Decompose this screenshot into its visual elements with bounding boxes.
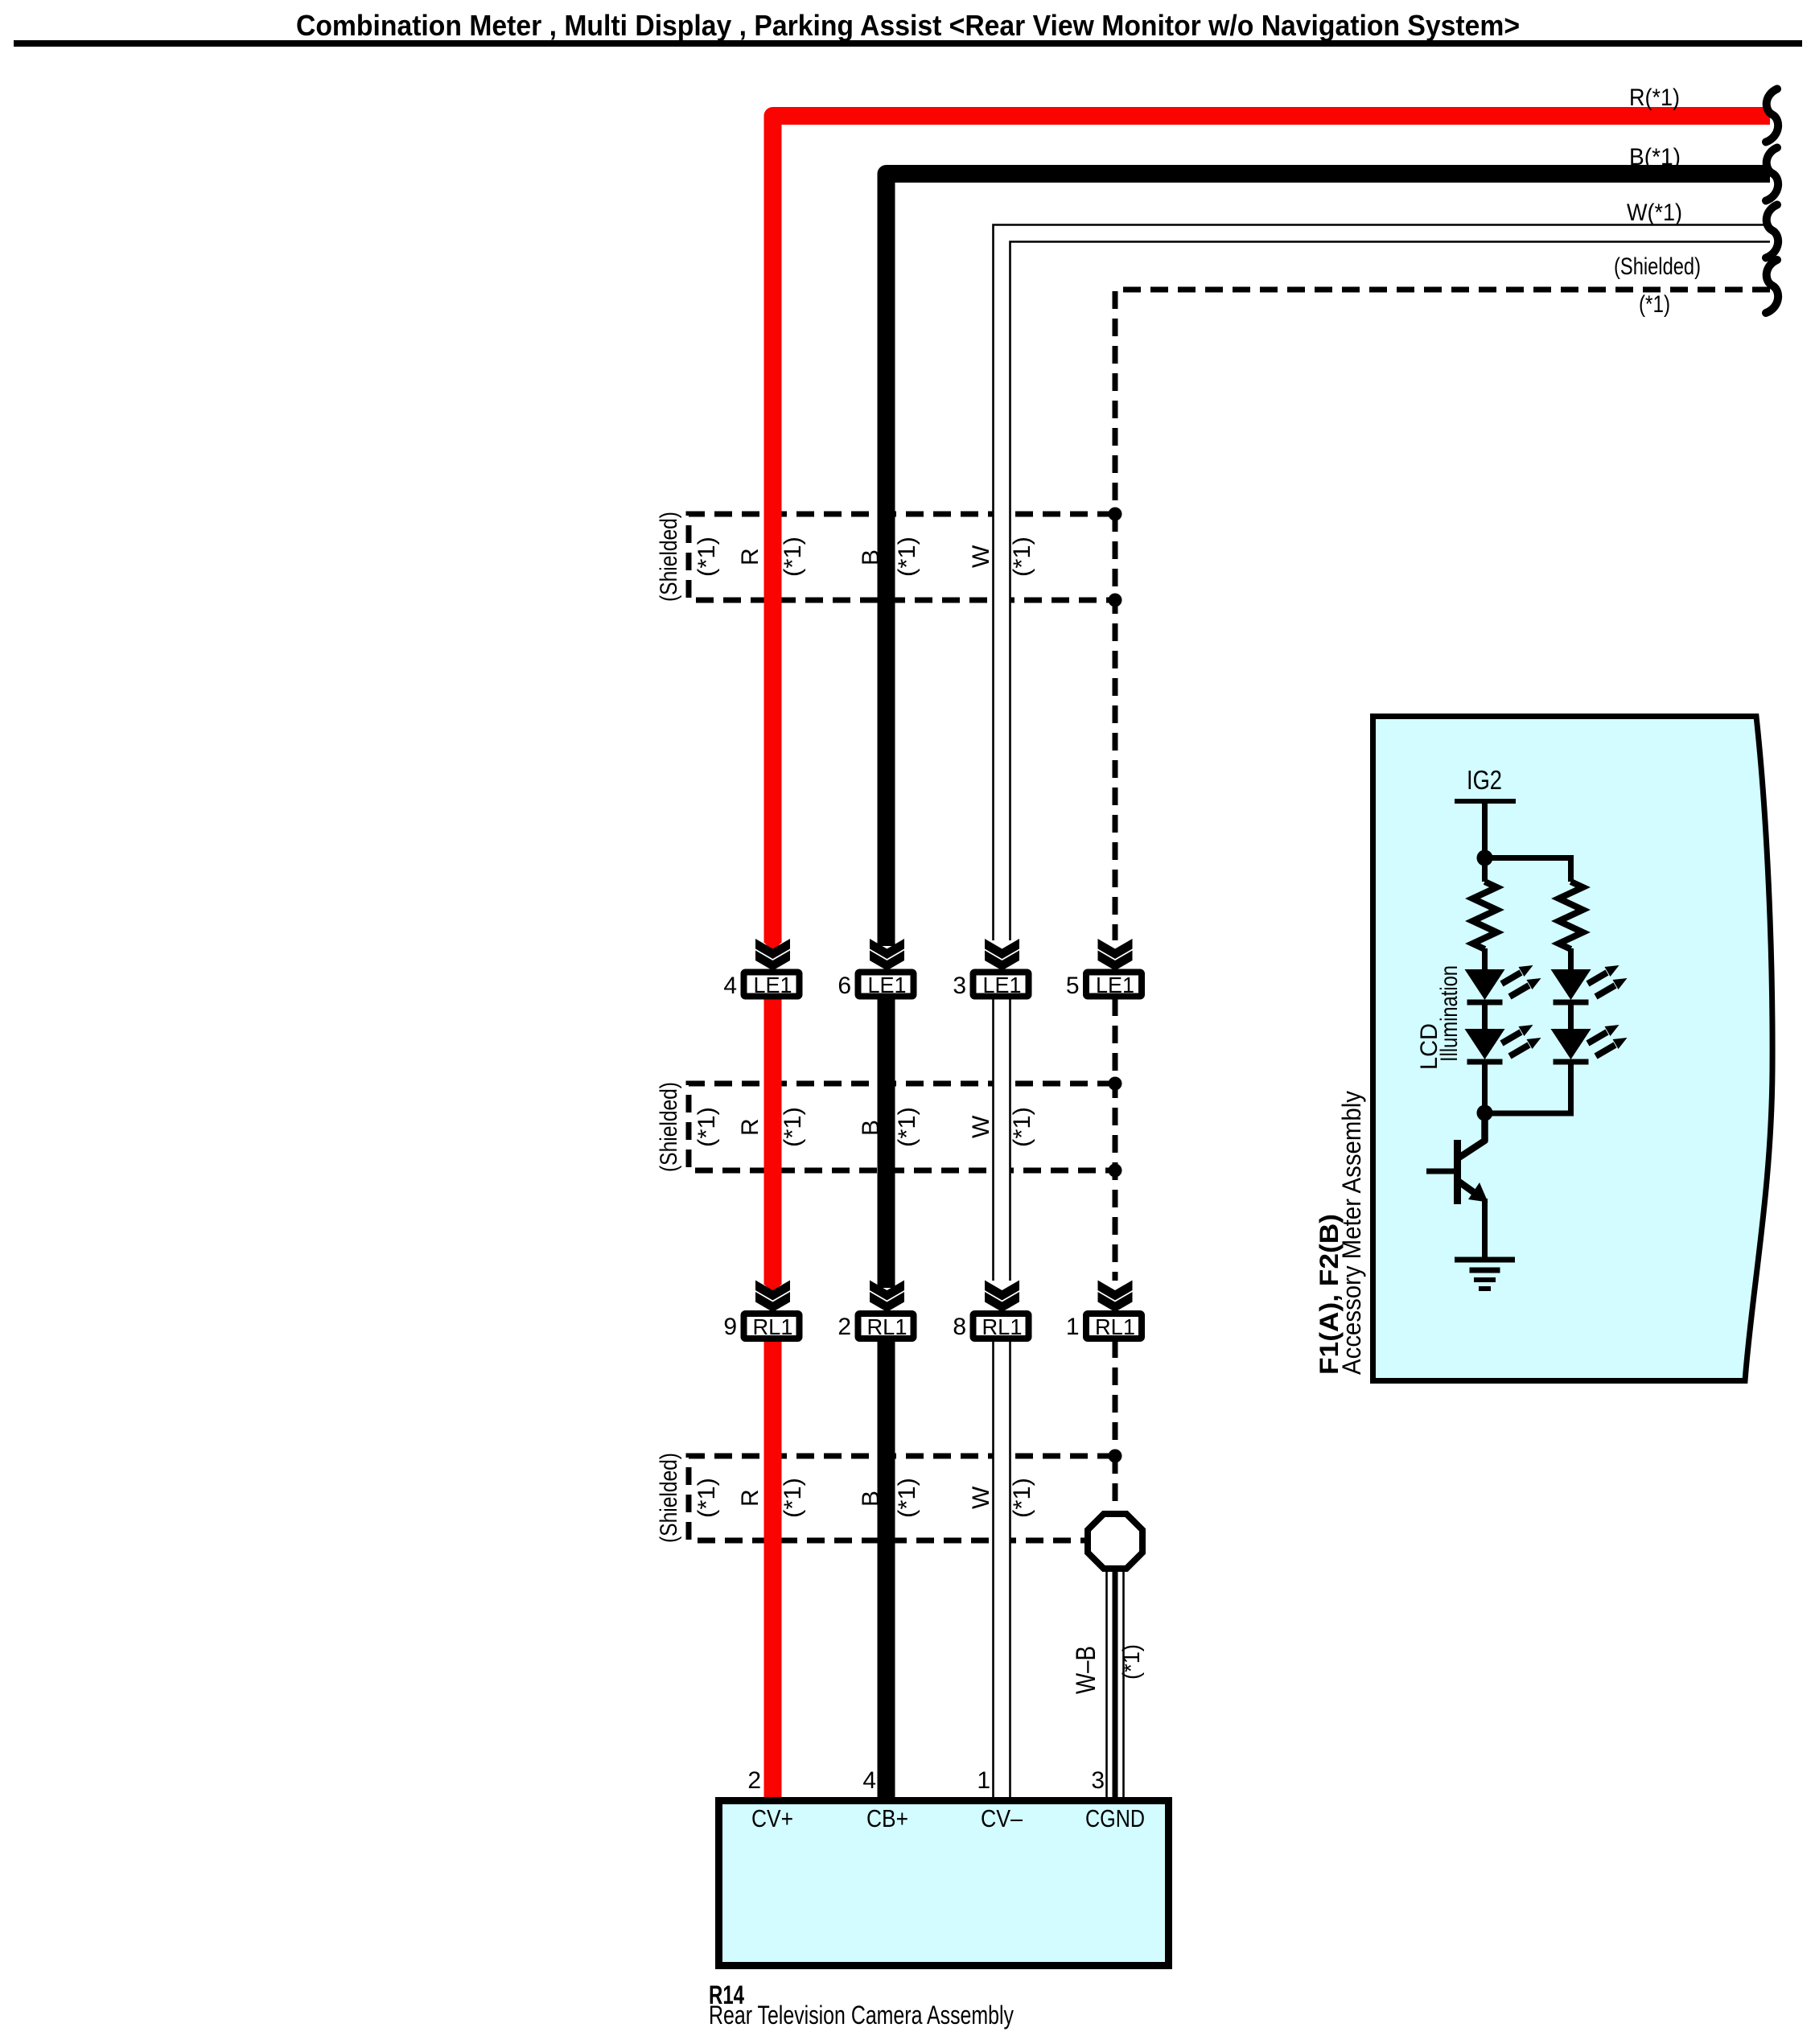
svg-text:(*1): (*1) [1009, 1478, 1035, 1518]
connector LE1 pin6 arrow [870, 939, 904, 971]
wire W-B white underlay [1106, 1572, 1123, 1799]
LED D2 (top right) [1551, 965, 1628, 1002]
junction dot box1 top [1109, 508, 1122, 521]
accessory meter assembly box (torn right edge) [1373, 717, 1773, 1381]
svg-text:(*1): (*1) [894, 1478, 920, 1518]
svg-text:(*1): (*1) [894, 1107, 920, 1147]
svg-text:4: 4 [862, 1767, 876, 1794]
connector RL1 pin9 arrow [755, 1281, 790, 1313]
resistor left [1473, 882, 1497, 949]
svg-text:(*1): (*1) [693, 1107, 720, 1147]
power tab IG2 [1455, 799, 1516, 804]
junction dot box1 bottom [1109, 594, 1122, 607]
connector RL1 pin8 box [973, 1314, 1029, 1339]
svg-text:Accessory Meter Assembly: Accessory Meter Assembly [1337, 1091, 1366, 1375]
connector LE1 pin3 box [973, 973, 1029, 998]
shield ground octagon [1088, 1514, 1142, 1569]
svg-text:RL1: RL1 [982, 1314, 1023, 1339]
svg-text:3: 3 [1091, 1767, 1105, 1794]
svg-text:(*1): (*1) [780, 1107, 806, 1147]
continuation squiggle wire W [1766, 205, 1778, 258]
ground symbol line4 [1479, 1286, 1491, 1291]
connector LE1 pin4 arrow [755, 939, 790, 971]
svg-text:LE1: LE1 [754, 973, 792, 997]
svg-text:B: B [858, 1491, 884, 1507]
svg-text:RL1: RL1 [753, 1314, 793, 1339]
wire W inner line [1010, 242, 1771, 1800]
svg-text:(*1): (*1) [1009, 1107, 1035, 1147]
connector RL1 pin2 box [858, 1314, 914, 1339]
LED D4 (bottom right) [1551, 1025, 1628, 1062]
connector RL1 pin1 arrow [1098, 1281, 1133, 1313]
svg-text:1: 1 [977, 1767, 990, 1794]
ground symbol line3 [1474, 1277, 1496, 1282]
connector RL1 pin1 box [1086, 1314, 1142, 1339]
junction dot box2 top [1109, 1077, 1122, 1091]
continuation squiggle wire B [1766, 148, 1778, 201]
svg-text:(*1): (*1) [693, 537, 720, 577]
wire LED3 to node2 [1482, 1062, 1488, 1112]
wire R pointed tip at RL1 [764, 1284, 782, 1294]
svg-text:4: 4 [723, 973, 737, 999]
connector LE1 pin3 arrow [985, 939, 1019, 971]
transistor Q1 base lead [1426, 1169, 1454, 1174]
LED D3 (bottom left) [1465, 1025, 1541, 1062]
wire R (red): top corner run [773, 116, 1771, 943]
wire branch to right resistor [1485, 858, 1571, 882]
connector LE1 pin6 box [858, 973, 914, 998]
wire resistor right to LED2 [1568, 948, 1574, 970]
svg-text:B(*1): B(*1) [1629, 144, 1681, 171]
svg-text:B: B [858, 549, 884, 565]
svg-text:LE1: LE1 [1096, 973, 1134, 997]
svg-text:W: W [968, 545, 994, 568]
svg-text:R(*1): R(*1) [1629, 84, 1680, 111]
ground symbol line2 [1470, 1268, 1500, 1273]
svg-text:8: 8 [953, 1314, 966, 1340]
continuation squiggle shielded [1766, 260, 1778, 313]
svg-text:2: 2 [838, 1314, 851, 1340]
wire B segment RL1 to R14 [878, 1340, 895, 1799]
wire R pointed tip at LE1 [764, 942, 782, 952]
svg-text:R: R [737, 1118, 763, 1136]
node dot at branch [1477, 850, 1493, 866]
svg-text:Rear Television Camera Assembl: Rear Television Camera Assembly [709, 2001, 1014, 2030]
svg-text:(Shielded): (Shielded) [1614, 253, 1701, 280]
svg-text:W: W [968, 1115, 994, 1138]
wire resistor left to LED1 [1482, 948, 1488, 970]
LED D1 (top left) [1465, 965, 1541, 1002]
junction dot box3 top [1109, 1450, 1122, 1463]
svg-text:9: 9 [723, 1314, 737, 1340]
svg-text:(Shielded): (Shielded) [656, 1082, 682, 1172]
wire shielded dashed: top run and vertical [1115, 290, 1770, 1514]
svg-text:CV–: CV– [981, 1804, 1023, 1832]
R14 box [719, 1801, 1169, 1966]
svg-text:(Shielded): (Shielded) [656, 1453, 682, 1543]
connector LE1 pin4 box [744, 973, 800, 998]
connector LE1 pin5 arrow [1098, 939, 1133, 971]
svg-text:RL1: RL1 [1095, 1314, 1135, 1339]
svg-text:2: 2 [747, 1767, 761, 1794]
resistor right [1559, 882, 1583, 949]
svg-text:(*1): (*1) [780, 537, 806, 577]
wire IG2 down to node [1482, 801, 1488, 882]
svg-text:RL1: RL1 [867, 1314, 907, 1339]
svg-text:6: 6 [838, 973, 851, 999]
wire R segment LE1 to RL1 [764, 998, 782, 1285]
svg-text:1: 1 [1066, 1314, 1080, 1340]
wire B (black): top corner run [887, 174, 1771, 946]
continuation squiggle wire R [1766, 89, 1778, 142]
wire W-B outer lines [1107, 1572, 1124, 1799]
svg-text:(*1): (*1) [1639, 291, 1670, 318]
svg-text:CB+: CB+ [866, 1804, 908, 1832]
transistor Q1 emitter diagonal [1458, 1181, 1475, 1193]
wire LED2 to LED4 [1568, 1001, 1574, 1029]
connector RL1 pin2 arrow [870, 1281, 904, 1313]
wire B segment LE1 to RL1 [878, 998, 895, 1288]
transistor Q1 emitter arrowhead [1468, 1182, 1488, 1203]
svg-text:LE1: LE1 [983, 973, 1022, 997]
svg-text:W(*1): W(*1) [1627, 199, 1682, 226]
svg-text:(*1): (*1) [894, 537, 920, 577]
wire LED4 down and to node2 [1485, 1062, 1571, 1113]
svg-text:Illumination: Illumination [1436, 965, 1463, 1062]
svg-text:IG2: IG2 [1467, 765, 1502, 795]
connector RL1 pin9 box [744, 1314, 800, 1339]
svg-text:R: R [737, 1489, 763, 1507]
shield box 3 (dashed) [689, 1456, 1115, 1540]
wire W (white, double line): white underlay [994, 225, 1771, 1800]
title rule [14, 40, 1802, 47]
connector LE1 pin5 box [1086, 973, 1142, 998]
node dot 2 [1477, 1105, 1493, 1121]
svg-text:(*1): (*1) [1118, 1644, 1145, 1680]
wire W outer line [994, 225, 1771, 1800]
transistor Q1 collector wire and diagonal [1458, 1112, 1485, 1158]
svg-text:3: 3 [953, 973, 966, 999]
svg-text:LE1: LE1 [868, 973, 907, 997]
wire LED1 to LED3 [1482, 1001, 1488, 1029]
svg-text:(*1): (*1) [1009, 537, 1035, 577]
connector RL1 pin8 arrow [985, 1281, 1019, 1313]
svg-text:Combination Meter , Multi Disp: Combination Meter , Multi Display , Park… [296, 9, 1520, 42]
svg-text:(*1): (*1) [780, 1478, 806, 1518]
transistor Q1 base bar [1454, 1140, 1461, 1204]
svg-text:R: R [737, 548, 763, 565]
svg-text:CV+: CV+ [751, 1804, 793, 1832]
shield box 1 (dashed) [689, 514, 1115, 600]
svg-text:W: W [968, 1486, 994, 1509]
shield box 2 (dashed) [689, 1084, 1115, 1170]
junction dot box2 bottom [1109, 1164, 1122, 1178]
svg-text:B: B [858, 1120, 884, 1136]
svg-text:CGND: CGND [1085, 1804, 1145, 1832]
svg-text:(Shielded): (Shielded) [656, 512, 682, 602]
ground symbol line1 [1455, 1257, 1515, 1263]
svg-text:5: 5 [1066, 973, 1080, 999]
transistor Q1 emitter wire [1482, 1199, 1488, 1260]
wire R segment RL1 to R14 [764, 1340, 782, 1799]
svg-text:(*1): (*1) [693, 1478, 720, 1518]
svg-text:W–B: W–B [1071, 1646, 1101, 1694]
wire W-B black stripe [1113, 1572, 1118, 1799]
